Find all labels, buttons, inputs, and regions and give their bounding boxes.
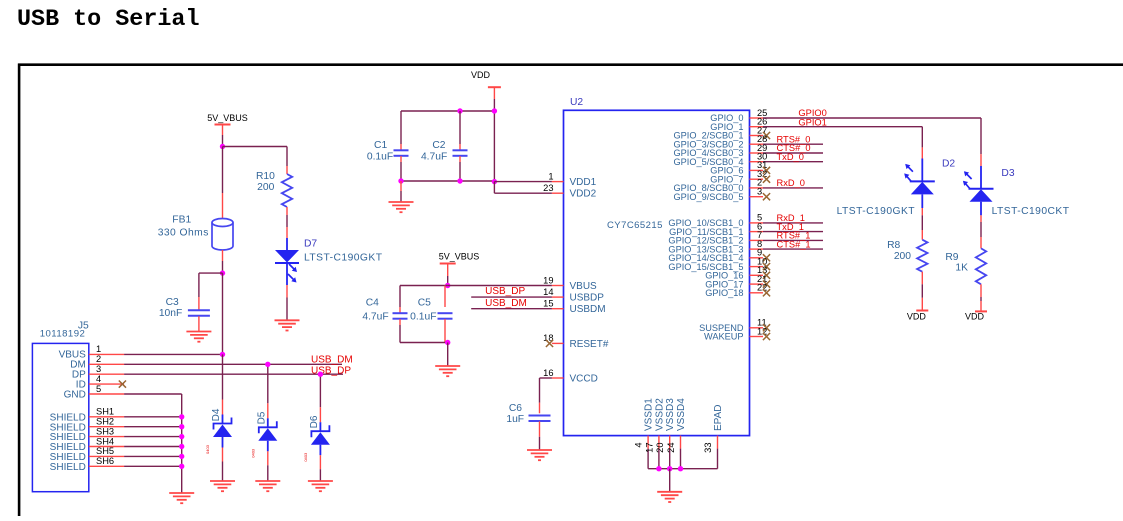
wire SH2 to shield bus xyxy=(124,426,182,428)
ground stem xyxy=(400,181,402,191)
junction on shield bus xyxy=(179,464,184,469)
wire VSSD/EPAD ground bus xyxy=(648,468,717,470)
svg-text:1: 1 xyxy=(548,171,553,181)
svg-text:10nF: 10nF xyxy=(159,308,182,319)
no-connect X on U2 pin 31 xyxy=(763,167,770,174)
svg-text:R9: R9 xyxy=(945,252,958,263)
C5 top lead xyxy=(444,286,446,308)
junction VDD vertical / pin1 wire xyxy=(492,179,497,184)
svg-text:D7: D7 xyxy=(304,239,317,250)
junction on VSSD bus xyxy=(656,466,661,471)
wire D2 to R8 xyxy=(921,215,923,230)
R9 top pin xyxy=(980,237,982,248)
D2 anode lead xyxy=(921,194,923,208)
svg-text:VDD: VDD xyxy=(471,70,491,80)
svg-text:1uF: 1uF xyxy=(506,414,524,425)
junction VDD vertical xyxy=(492,108,497,113)
junction FB1 / C3 branch xyxy=(220,270,225,275)
R10 top pin xyxy=(286,166,288,174)
svg-text:33: 33 xyxy=(703,443,713,453)
U2 pin 28 (GPIO_3/SCB0_2) stub xyxy=(750,143,764,145)
ground stem xyxy=(669,469,671,492)
D6 top pin xyxy=(319,407,321,422)
wire GPIO1 down to D2 xyxy=(921,127,923,148)
U2 pin 20 (VSSD3) stub xyxy=(669,436,671,449)
svg-text:20: 20 xyxy=(655,443,665,453)
resistor R9 xyxy=(976,248,986,284)
svg-text:17: 17 xyxy=(644,443,654,453)
svg-text:LTST-C190GKT: LTST-C190GKT xyxy=(304,252,383,263)
wire USB_DP net from J5.3 (DP) xyxy=(124,373,343,375)
svg-text:CTS#_1: CTS#_1 xyxy=(777,239,811,249)
wire net GPIO1 xyxy=(763,126,922,128)
ground (C1/C2) xyxy=(389,202,414,212)
svg-text:TxD_0: TxD_0 xyxy=(777,152,804,162)
svg-text:C2: C2 xyxy=(432,140,445,151)
D7 cathode lead xyxy=(286,264,288,286)
svg-text:2: 2 xyxy=(96,354,101,364)
svg-text:200: 200 xyxy=(894,251,911,262)
ground stem xyxy=(447,343,449,367)
no-connect X on U2 pin 32 xyxy=(763,176,770,183)
D2 bottom pin xyxy=(921,208,923,215)
J5 pin SH6 stub xyxy=(89,465,124,467)
U2 pin 5 (GPIO_10/SCB1_0) stub xyxy=(750,222,764,224)
svg-text:0403: 0403 xyxy=(250,448,255,458)
J5 pin 5 (GND) stub xyxy=(89,393,124,395)
ground (C4/C5) xyxy=(435,366,460,376)
svg-text:19: 19 xyxy=(543,275,553,285)
J5 pin 3 (DP) stub xyxy=(89,373,124,375)
U2 pin 10 (GPIO_15/SCB1_5) stub xyxy=(750,266,764,268)
svg-text:VSSD4: VSSD4 xyxy=(676,398,687,431)
svg-text:RESET#: RESET# xyxy=(570,339,609,350)
svg-text:CY7C65215: CY7C65215 xyxy=(607,220,663,231)
C6 bottom lead xyxy=(539,421,541,436)
J5 pin SH3 stub xyxy=(89,436,124,438)
J5 pin SH1 stub xyxy=(89,416,124,418)
svg-text:VDD: VDD xyxy=(907,311,927,321)
wire USB_DM to U2.15 xyxy=(471,308,552,310)
svg-text:4: 4 xyxy=(634,443,644,448)
junction USB_DP / D6 xyxy=(318,372,323,377)
LED D2 xyxy=(904,164,935,195)
power bar VDD (top) xyxy=(488,86,501,88)
R9 bottom pin xyxy=(980,284,982,297)
U2 pin 8 (GPIO_13/SCB1_3) stub xyxy=(750,248,764,250)
wire to U2 VBUS pin xyxy=(448,285,552,287)
svg-text:C3: C3 xyxy=(166,297,179,308)
capacitor C6 xyxy=(529,416,551,422)
wire down to C2 xyxy=(459,111,461,144)
D5 bottom pin xyxy=(267,451,269,465)
wire FB1 to VBUS line xyxy=(222,273,224,354)
junction on shield bus xyxy=(179,434,184,439)
no-connect X on U2 pin 22 xyxy=(763,289,770,296)
D5 top pin xyxy=(267,403,269,418)
U2 pin 22 (GPIO_18) stub xyxy=(750,292,764,294)
svg-text:0.1uF: 0.1uF xyxy=(367,151,393,162)
svg-text:C5: C5 xyxy=(418,297,431,308)
junction on shield bus xyxy=(179,424,184,429)
svg-text:1K: 1K xyxy=(955,263,968,274)
wire to U2 pin 23 xyxy=(494,192,552,194)
J5 pin 1 (VBUS) stub xyxy=(89,353,124,355)
capacitor C3 xyxy=(188,310,210,316)
VDD vertical wire xyxy=(493,99,495,182)
wire SH4 to shield bus xyxy=(124,446,182,448)
svg-text:GND: GND xyxy=(64,389,86,400)
U2 pin 13 (GPIO_16) stub xyxy=(750,274,764,276)
J5 pin SH4 stub xyxy=(89,446,124,448)
ground (D5) xyxy=(255,481,280,491)
junction on VSSD bus xyxy=(667,466,672,471)
wire EPAD to gnd bus xyxy=(717,449,719,469)
wire net TxD_0 xyxy=(763,161,823,163)
FB1 bottom pin xyxy=(222,250,224,261)
U2 pin 21 (GPIO_17) stub xyxy=(750,283,764,285)
wire net RTS#_1 xyxy=(763,239,823,241)
ground (C6) xyxy=(527,450,552,460)
D4 top pin xyxy=(222,400,224,415)
svg-text:GPIO_18: GPIO_18 xyxy=(705,288,743,298)
svg-text:SH3: SH3 xyxy=(96,426,114,436)
U2 pin 1 (VDD1) stub xyxy=(552,181,564,183)
svg-text:0403: 0403 xyxy=(205,444,210,454)
U2 pin 29 (GPIO_4/SCB0_3) stub xyxy=(750,152,764,154)
junction C2 bottom xyxy=(457,178,462,183)
U2 pin 23 (VDD2) stub xyxy=(552,192,564,194)
wire C1/C2 bottom to U2 VDD1 xyxy=(401,180,494,182)
svg-text:SH2: SH2 xyxy=(96,417,114,427)
svg-text:EPAD: EPAD xyxy=(713,405,724,432)
U2 pin 32 (GPIO_7) stub xyxy=(750,178,764,180)
no-connect X on U2 RESET# xyxy=(546,340,553,347)
capacitor C1 xyxy=(394,150,409,156)
svg-text:14: 14 xyxy=(543,287,553,297)
ground (J5 shield bus) xyxy=(169,493,194,503)
wire SH1 to shield bus xyxy=(124,416,182,418)
svg-text:FB1: FB1 xyxy=(172,215,191,226)
U2 pin 18 (RESET#) stub xyxy=(552,342,564,344)
svg-text:LTST-C190CKT: LTST-C190CKT xyxy=(992,206,1070,217)
J5 pin SH5 stub xyxy=(89,455,124,457)
wire D3 to R9 xyxy=(980,222,982,237)
wire to R10 xyxy=(223,146,288,148)
svg-text:GPIO1: GPIO1 xyxy=(798,117,826,127)
D7 anode lead xyxy=(286,238,288,250)
connector J5 body xyxy=(32,343,88,491)
svg-text:SH5: SH5 xyxy=(96,446,114,456)
svg-text:3: 3 xyxy=(96,364,101,374)
U2 pin 25 (GPIO_0) stub xyxy=(750,117,764,119)
U2 pin 19 (VBUS) stub xyxy=(552,285,564,287)
D3 cathode pin xyxy=(980,154,982,166)
svg-text:VCCD: VCCD xyxy=(570,373,598,384)
junction on shield bus xyxy=(179,414,184,419)
svg-text:VSSD3: VSSD3 xyxy=(665,398,676,431)
svg-text:VBUS: VBUS xyxy=(570,281,598,292)
resistor R8 xyxy=(917,240,927,272)
U2 pin 4 (VSSD1) stub xyxy=(647,436,649,449)
svg-text:WAKEUP: WAKEUP xyxy=(704,332,743,342)
wire down to R10 xyxy=(286,147,288,167)
VDD stem xyxy=(980,301,982,311)
D6 bottom pin xyxy=(319,455,321,469)
wire VSSD4 to gnd bus xyxy=(680,449,682,469)
wire net CTS#_0 xyxy=(763,152,823,154)
junction C2 top xyxy=(457,108,462,113)
svg-text:RxD_0: RxD_0 xyxy=(777,178,805,188)
wire to D6 xyxy=(319,374,321,407)
capacitor C5 xyxy=(438,313,453,319)
svg-text:USBDP: USBDP xyxy=(570,293,605,304)
D3 anode lead xyxy=(980,202,982,216)
ground (U2 VSSD) xyxy=(657,492,682,502)
svg-text:USB_DP: USB_DP xyxy=(311,365,351,376)
U2 pin 33 (EPAD) stub xyxy=(717,436,719,449)
no-connect X on U2 pin 27 xyxy=(763,132,770,139)
svg-text:5V_VBUS: 5V_VBUS xyxy=(207,113,248,123)
wire net TxD_1 xyxy=(763,231,823,233)
svg-text:C6: C6 xyxy=(509,403,522,414)
VDD stem xyxy=(921,298,923,311)
C2 bottom lead xyxy=(459,156,461,162)
D7 top pin xyxy=(286,227,288,238)
no-connect X on U2 pin 21 xyxy=(763,281,770,288)
U2 pin 9 (GPIO_14/SCB1_4) stub xyxy=(750,257,764,259)
D3 bottom pin xyxy=(980,215,982,222)
no-connect X on U2 pin 11 xyxy=(763,324,770,331)
C3 top lead xyxy=(198,297,200,310)
svg-text:LTST-C190GKT: LTST-C190GKT xyxy=(837,206,916,217)
svg-text:0.1uF: 0.1uF xyxy=(410,311,436,322)
svg-text:R8: R8 xyxy=(887,240,900,251)
no-connect X on U2 pin 10 xyxy=(763,263,770,270)
wire VCCD to C6 xyxy=(540,377,552,379)
D4 bottom pin xyxy=(222,448,224,462)
wire down to FB1 xyxy=(222,147,224,194)
capacitor C4 xyxy=(393,313,408,319)
no-connect X on U2 pin 3 xyxy=(763,193,770,200)
svg-text:VDD2: VDD2 xyxy=(570,189,597,200)
svg-text:D3: D3 xyxy=(1001,168,1014,179)
svg-text:23: 23 xyxy=(543,183,553,193)
ground (D7) xyxy=(275,320,300,330)
schematic border frame xyxy=(18,63,1123,66)
U2 pin 27 (GPIO_2/SCB0_1) stub xyxy=(750,135,764,137)
junction VBUS line / D4 xyxy=(220,352,225,357)
wire VBUS net from J5.1 to FB1/D4 column xyxy=(124,353,222,355)
IC U2 CY7C65215 body xyxy=(564,110,750,435)
junction C1 bottom / ground xyxy=(398,178,403,183)
U2 pin 14 (USBDP) stub xyxy=(552,296,564,298)
ground (C3) xyxy=(186,332,211,342)
D2 cathode pin xyxy=(921,147,923,158)
wire USB_DM net from J5.2 (DM) xyxy=(124,363,342,365)
wire to C3 xyxy=(199,272,223,274)
svg-text:330 Ohms: 330 Ohms xyxy=(158,227,209,238)
svg-text:SH1: SH1 xyxy=(96,407,114,417)
C5 bottom lead xyxy=(444,319,446,343)
U2 pin 15 (USBDM) stub xyxy=(552,308,564,310)
svg-text:4.7uF: 4.7uF xyxy=(421,151,447,162)
R10 bottom pin xyxy=(286,207,288,215)
no-connect X on U2 pin 12 xyxy=(763,333,770,340)
ferrite bead FB1 xyxy=(212,219,233,251)
J5 pin SH2 stub xyxy=(89,426,124,428)
wire SH5 to shield bus xyxy=(124,455,182,457)
VDD stem xyxy=(493,87,495,99)
wire shield/gnd bus vertical xyxy=(181,394,183,493)
wire to U2 pin 1 xyxy=(494,181,552,183)
svg-text:24: 24 xyxy=(666,443,676,453)
wire down to C1 xyxy=(400,111,402,144)
wire net RTS#_0 xyxy=(763,143,823,145)
C4 top lead xyxy=(399,307,401,313)
svg-text:USBDM: USBDM xyxy=(570,304,606,315)
J5 pin names xyxy=(50,350,86,473)
wire GND net from J5.5 xyxy=(124,393,182,395)
U2 pin 17 (VSSD2) stub xyxy=(658,436,660,449)
TVS diode D4 xyxy=(214,418,232,430)
wire C4/C5 bottom xyxy=(400,342,448,344)
no-connect X on J5 ID pin xyxy=(119,381,126,388)
svg-text:1: 1 xyxy=(96,344,101,354)
R8 top pin xyxy=(921,230,923,240)
ground (D6) xyxy=(308,481,333,491)
U2 pin 16 (VCCD) stub xyxy=(552,377,564,379)
no-connect X on U2 pin 9 xyxy=(763,254,770,261)
wire R10 to D7 xyxy=(286,215,288,227)
svg-text:USB_DM: USB_DM xyxy=(485,298,527,309)
capacitor C2 xyxy=(453,150,468,156)
U2 pin 3 (GPIO_9/SCB0_5) stub xyxy=(750,196,764,198)
U2 pin 30 (GPIO_5/SCB0_4) stub xyxy=(750,161,764,163)
junction 5V_VBUS / C4 C5 / VBUS pin xyxy=(445,283,450,288)
svg-text:3: 3 xyxy=(757,187,762,197)
wire net RxD_0 xyxy=(763,187,823,189)
power bar 5V_VBUS (top-left) xyxy=(215,124,231,126)
wire VSSD3 to gnd bus xyxy=(669,449,671,469)
svg-text:16: 16 xyxy=(543,368,553,378)
no-connect X on U2 pin 13 xyxy=(763,272,770,279)
svg-text:C4: C4 xyxy=(366,297,379,308)
svg-text:4: 4 xyxy=(96,374,101,384)
U2 pin 2 (GPIO_8/SCB0_0) stub xyxy=(750,187,764,189)
C2 top lead xyxy=(459,144,461,150)
junction on VSSD bus xyxy=(678,466,683,471)
junction USB_DM / D5 xyxy=(265,362,270,367)
FB1 top pin xyxy=(222,193,224,219)
wire to D4 xyxy=(222,354,224,399)
svg-text:C1: C1 xyxy=(374,140,387,151)
wire C1/C2 top xyxy=(401,110,494,112)
wire VSSD1 to gnd bus xyxy=(647,449,649,469)
TVS diode D5 xyxy=(259,421,277,433)
TVS diode D6 xyxy=(311,425,329,437)
power bar VDD (under R8) xyxy=(916,310,928,312)
svg-text:USB to Serial: USB to Serial xyxy=(17,7,199,33)
wire GPIO0 down to D3 xyxy=(980,118,982,154)
junction 5V_VBUS / R10 branch xyxy=(220,144,225,149)
svg-text:USB_DM: USB_DM xyxy=(311,355,353,366)
svg-text:VSSD2: VSSD2 xyxy=(654,398,665,431)
C6 top lead xyxy=(539,403,541,414)
C3 bottom lead xyxy=(198,316,200,331)
C1 bottom lead xyxy=(400,156,402,162)
wire down to C4 xyxy=(399,286,401,308)
svg-text:200: 200 xyxy=(257,182,274,193)
svg-text:5V_VBUS: 5V_VBUS xyxy=(439,251,480,261)
power bar 5V_VBUS (mid) xyxy=(440,263,456,265)
J5 pin 2 (DM) stub xyxy=(89,363,124,365)
LED D7 xyxy=(275,250,299,283)
U2 pin 24 (VSSD4) stub xyxy=(680,436,682,449)
svg-text:SH4: SH4 xyxy=(96,436,114,446)
U2 pin 6 (GPIO_11/SCB1_1) stub xyxy=(750,231,764,233)
power stem xyxy=(222,125,224,136)
junction on shield bus xyxy=(179,454,184,459)
ground (D4) xyxy=(210,481,235,491)
svg-text:15: 15 xyxy=(543,299,553,309)
svg-text:R10: R10 xyxy=(256,171,275,182)
U2 pin 11 (SUSPEND) stub xyxy=(750,327,764,329)
wire VSSD2 to gnd bus xyxy=(658,449,660,469)
junction ground stem xyxy=(445,340,450,345)
R8 bottom pin xyxy=(921,272,923,285)
U2 pin 31 (GPIO_6) stub xyxy=(750,169,764,171)
power bar VDD (under R9) xyxy=(975,310,987,312)
svg-text:GPIO_9/SCB0_5: GPIO_9/SCB0_5 xyxy=(674,192,744,202)
svg-text:10118192: 10118192 xyxy=(40,329,86,340)
wire C4/C5 top xyxy=(400,285,448,287)
svg-text:VDD1: VDD1 xyxy=(570,177,597,188)
LED D3 xyxy=(963,171,994,202)
svg-text:0403: 0403 xyxy=(303,452,308,462)
svg-text:D4: D4 xyxy=(211,408,222,421)
wire SH6 to shield bus xyxy=(124,465,182,467)
J5 pin 4 (ID) stub xyxy=(89,383,124,385)
C1 top lead xyxy=(400,144,402,150)
wire net GPIO0 xyxy=(763,117,981,119)
wire net CTS#_1 xyxy=(763,248,823,250)
U2 pin 12 (WAKEUP) stub xyxy=(750,336,764,338)
power stem xyxy=(447,264,449,277)
svg-text:USB_DP: USB_DP xyxy=(485,286,525,297)
svg-text:VDD: VDD xyxy=(965,311,985,321)
U2 pin 7 (GPIO_12/SCB1_2) stub xyxy=(750,239,764,241)
resistor R10 xyxy=(282,174,292,207)
wire SH3 to shield bus xyxy=(124,436,182,438)
C4 bottom lead xyxy=(399,319,401,325)
junction on shield bus xyxy=(179,444,184,449)
svg-text:VSSD1: VSSD1 xyxy=(644,398,655,431)
svg-text:D6: D6 xyxy=(309,415,320,428)
svg-text:5: 5 xyxy=(96,384,101,394)
wire net RxD_1 xyxy=(763,222,823,224)
svg-text:D2: D2 xyxy=(942,159,955,170)
svg-text:D5: D5 xyxy=(256,411,267,424)
D7 bottom pin xyxy=(286,285,288,298)
svg-text:SHIELD: SHIELD xyxy=(50,462,86,473)
svg-text:U2: U2 xyxy=(570,97,583,108)
wire USB_DP to U2.14 xyxy=(471,296,552,298)
svg-text:4.7uF: 4.7uF xyxy=(362,311,388,322)
U2 pin 26 (GPIO_1) stub xyxy=(750,126,764,128)
svg-text:SH6: SH6 xyxy=(96,456,114,466)
wire to D5 xyxy=(267,364,269,403)
